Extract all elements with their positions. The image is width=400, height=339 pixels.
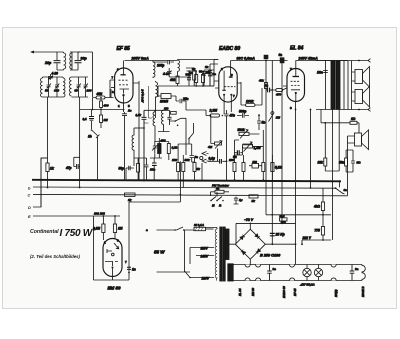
svg-text:5k: 5k [197,167,201,171]
electrolytic 25Kp [270,233,275,235]
capacitor C2 30p [75,61,82,63]
svg-text:220: 220 [163,106,169,110]
resistor 100/5 lower [155,98,157,118]
svg-text:B 250 C100: B 250 C100 [260,254,281,258]
svg-text:100: 100 [229,158,234,162]
svg-text:80C 0,8mA: 80C 0,8mA [237,56,256,60]
svg-text:775: 775 [315,229,321,233]
wire: bus C [33,194,348,195]
resistor 1k on x47.5 [46,163,49,172]
wire screen down [138,81,140,180]
capacitor C1 20p [54,61,61,63]
svg-text:5n: 5n [265,84,268,88]
svg-text:1k: 1k [128,198,132,202]
svg-text:0,1M: 0,1M [93,227,100,231]
coil L2 [70,53,72,69]
T3 secondary coil [178,60,180,74]
svg-text:5k: 5k [216,187,220,191]
TA input arrows [202,152,209,164]
capacitor 25n dark [152,163,157,165]
pot 1M tone [269,112,275,122]
coil T1 right [63,77,65,97]
svg-text:∠17 5/0,2A: ∠17 5/0,2A [300,283,315,287]
switches M R [210,200,212,202]
svg-text:5,1M: 5,1M [275,166,282,170]
OT connections [316,60,368,110]
EM80 internals [107,243,119,253]
detector row caps/resistors [158,77,214,97]
EF85 internals [121,74,126,76]
svg-text:I 750 W: I 750 W [60,228,94,239]
resistor 40n bottom [345,158,348,166]
svg-text:46k: 46k [96,92,104,96]
svg-text:100k: 100k [246,100,255,104]
resistor 41k on 266 [264,83,267,89]
svg-text:EL 84: EL 84 [238,288,242,296]
wire T1 bottom down to b [47,97,49,188]
speaker arrows [368,59,371,112]
capacitor 2n cathode [122,112,127,180]
coil L3 osc [132,128,134,158]
resistor 775 [321,227,324,236]
resistor 6,2k [167,144,170,154]
wire: bus b [33,187,336,188]
svg-text:1b: 1b [88,135,92,139]
svg-text:5k: 5k [252,199,256,203]
lamp 1 [303,268,311,276]
svg-text:6a: 6a [279,53,283,57]
tube V2 EABC80 envelope [219,67,237,102]
svg-text:600: 600 [54,89,59,93]
svg-text:10k: 10k [172,158,177,162]
svg-text:1M: 1M [118,227,123,231]
capacitor 1n strip2 [350,265,355,281]
speaker SP2 [355,90,363,104]
svg-text:EF 85: EF 85 [117,46,131,52]
capacitor 0,1u het [208,160,226,162]
OT bottom wire [316,109,368,111]
svg-text:41k: 41k [258,79,264,83]
resistor 10k mid [177,163,180,172]
svg-text:240V 42mA: 240V 42mA [298,56,319,60]
svg-text:1n: 1n [273,267,277,271]
RC combo bias [280,218,288,221]
wire: bus D [33,158,48,207]
wire T2 bottom down [79,97,81,188]
resistor 100 det [233,163,236,172]
svg-text:5Ω: 5Ω [357,161,362,165]
box 100/5 [161,94,171,99]
trimmer cap T1b [55,77,59,97]
resistor 470 grid [276,89,283,92]
svg-text:C: C [28,193,31,198]
pot 4M [215,142,222,145]
svg-text:EM 80: EM 80 [108,286,122,291]
EABC80 internals [223,71,225,90]
capacitor 10n [323,71,328,73]
switch 6a right [336,181,345,194]
wire down to bus [97,137,99,180]
tube V4 EM80 envelope [103,239,122,277]
svg-text:470: 470 [275,93,281,97]
T5 primary winding [215,229,217,281]
strip end bump [362,265,365,281]
svg-text:47n: 47n [229,114,236,118]
verticals to buses mid [180,161,226,202]
lamp 2 [314,268,322,276]
svg-text:EF(B): EF(B) [334,289,338,297]
wire grid down column [80,98,125,130]
capacitor 6n [234,152,243,154]
T5 heater winding right [228,264,233,281]
wire vertical 266 [266,61,331,215]
svg-text:25 Kp: 25 Kp [275,233,285,237]
resistor 1M vertical [100,115,103,123]
wire TA down [201,163,203,180]
wire vertical 272.3 [271,61,273,245]
svg-text:4kΩ: 4kΩ [313,205,321,209]
tube V3 EL84 envelope [287,69,305,102]
resistor 50k mid [182,163,185,172]
svg-text:50k: 50k [185,158,190,162]
svg-text:1,5k: 1,5k [136,113,142,117]
electrolytic 400 [158,144,161,154]
svg-text:2n: 2n [127,109,132,113]
wire assembly2 top [70,52,80,70]
resistor 46k grid [96,96,105,99]
svg-text:100/5: 100/5 [160,100,168,104]
resistor 40k [176,76,179,84]
T5 taps [190,248,214,278]
capacitor 50p [126,158,134,180]
svg-text:220V: 220V [201,277,210,281]
svg-text:Continental: Continental [30,229,59,235]
svg-text:25n: 25n [149,168,155,172]
resistor 1k C line [125,193,136,196]
resistor 5,1M [271,163,274,172]
strip bumps 4 [331,265,336,281]
svg-text:4M: 4M [207,145,213,149]
svg-text:EABC 80: EABC 80 [282,286,286,298]
svg-text:E: E [28,214,31,219]
capacitor 47p stub [74,157,80,166]
capacitor 1n EM80 [127,267,131,269]
heater strip top/bottom [229,265,362,281]
det area wires [218,122,264,181]
IF transformer T3 primary coil [153,61,155,79]
osc coil A [153,110,155,141]
strip bumps 3 [290,265,295,281]
coupling cap 0,2 horizontal [266,88,272,93]
capacitor 5n det [257,114,261,130]
resistor det2 [242,163,245,172]
wires left bias bottom [186,86,214,110]
wire osc top [144,109,170,111]
svg-text:1n: 1n [132,268,136,272]
svg-text:5n: 5n [262,121,266,125]
svg-text:400: 400 [103,104,109,108]
resistor 0,1M EM80 [102,224,105,233]
pin stubs V1 [110,61,139,113]
IF can T1 [41,77,64,97]
svg-text:10n: 10n [317,71,323,75]
capacitor 1n strip1 [267,265,272,281]
svg-text:30p: 30p [81,57,88,61]
svg-text:Si 0,1A: Si 0,1A [194,223,204,227]
svg-text:6a: 6a [344,188,348,192]
wire: bus E [33,215,120,217]
switch 1b [91,129,93,131]
capacitor 5k bottom [351,150,355,172]
capacitor 1,5k osc [142,110,147,180]
capacitor 25n [176,96,186,110]
capacitor 5n band [190,150,195,162]
svg-text:1n: 1n [355,267,359,271]
wire 282V [302,110,333,245]
svg-text:500: 500 [253,160,258,164]
svg-text:1Ω: 1Ω [351,117,356,121]
IF can T2 [70,77,89,97]
svg-text:2,2M: 2,2M [209,109,218,113]
coil L1 [57,52,66,70]
svg-text:EM 80: EM 80 [251,287,255,296]
trimmer cap T1a [47,77,51,97]
power transformer T5 core [220,227,222,281]
svg-text:50: 50 [199,70,203,74]
capacitor 40n keys [234,197,239,204]
EM80 enclosure wires [94,202,181,280]
bridge B250C100 diamond [235,229,265,259]
bridge diodes [240,234,261,255]
capacitor 220 osc [167,110,171,125]
box 500 det [252,164,259,169]
bridge connections [229,223,296,264]
resistor 2,2M [210,114,220,117]
wire T3 top [153,60,218,61]
svg-text:FM Tastatur: FM Tastatur [212,184,230,188]
T3 second winding [156,81,158,98]
capacitor 47n [224,110,228,122]
svg-text:5k: 5k [189,71,193,75]
svg-text:282 V: 282 V [302,236,312,240]
svg-text:50: 50 [45,89,49,93]
svg-text:0,1: 0,1 [83,117,88,121]
resistor det3 [262,163,265,172]
capacitor osc2 [143,158,149,180]
antenna A arrow [30,51,34,54]
resistor 5k mid [193,163,196,172]
svg-text:EL 84: EL 84 [290,46,303,52]
wires right area verticals [310,110,312,189]
cap rows left of V2 [202,70,214,86]
capacitor 500p [237,113,249,117]
svg-text:−73 V: −73 V [244,218,254,222]
capacitor 105p [153,60,174,64]
wires osc region [178,144,194,162]
wire antenna to L1 [33,52,64,70]
mains lower wire [157,271,191,273]
svg-text:40k: 40k [169,78,176,82]
trimmer cap T2a [77,77,81,97]
resistor 100k [246,104,256,107]
svg-text:1M: 1M [276,116,281,120]
svg-text:105p: 105p [157,64,164,68]
svg-text:88,0: 88,0 [280,214,286,218]
svg-text:50: 50 [75,89,79,93]
resistor 1M EM80 [113,224,116,233]
left bias row: resistor 5k [193,71,196,80]
wire: main thick B+ bus [32,180,341,182]
wire anode bus [296,60,348,62]
svg-text:500p: 500p [239,110,246,114]
svg-text:500k: 500k [238,128,245,132]
output transformer T4 core [331,61,335,109]
pot 1,3M [243,145,253,148]
trimmer 4-20 [48,74,53,80]
resistor 0,1M horizontal [171,111,177,114]
svg-text:D: D [28,205,31,210]
resistor 5k keys [215,190,224,193]
svg-text:10k: 10k [318,161,324,165]
selector switch [184,230,190,278]
strip bumps 1 [245,265,250,281]
pot 500k volume [239,132,249,135]
svg-text:6,2k: 6,2k [172,146,178,150]
svg-text:EABC 80: EABC 80 [219,46,240,52]
svg-text:5n: 5n [195,155,199,159]
svg-text:20p: 20p [44,61,52,65]
resistor 1ohm tweeter [350,121,357,124]
svg-text:4-20: 4-20 [51,72,59,76]
wire anode to T3 [125,60,154,62]
EL84 internals [293,76,300,78]
wire assembly2 to grid line [78,52,93,97]
trimmer cap T2b [84,77,88,97]
switch osc [175,120,177,122]
svg-text:50p: 50p [119,167,125,171]
svg-text:145V: 145V [201,255,209,259]
svg-text:(2. Teil des Schaltbildes): (2. Teil des Schaltbildes) [30,254,81,259]
trimmer 4-30 [167,68,172,77]
svg-text:40n: 40n [338,161,345,165]
osc coil B [158,110,170,131]
grid wire [110,80,111,98]
resistor 5k on C [249,195,258,198]
svg-text:APC 0,4-5: APC 0,4-5 [141,89,145,104]
fuse Si [194,227,206,230]
wire L y158 [41,158,48,207]
T5 HV winding right [226,229,229,260]
svg-text:101 102: 101 102 [94,212,105,216]
wire anode up right [231,60,288,62]
svg-text:4-30: 4-30 [162,72,170,76]
speaker SP1 [355,70,363,84]
resistor 500 osc [137,164,140,173]
resistor 4k dropper [321,202,324,211]
svg-text:2k: 2k [205,65,209,69]
tube V1 EF85 envelope [115,68,133,103]
resistor 10k bottom [324,158,327,166]
resistor 400 [100,101,103,108]
switch band [188,138,190,140]
svg-text:1M: 1M [104,118,109,122]
wire detector to EABC grid [214,60,219,87]
svg-text:EF 85: EF 85 [293,288,297,296]
svg-text:110V: 110V [201,247,209,251]
svg-text:205V 9mA: 205V 9mA [131,56,150,60]
svg-text:25n: 25n [182,97,189,101]
svg-text:55 W: 55 W [154,250,165,255]
capacitor 0,1u [89,117,94,121]
svg-text:47p: 47p [65,166,72,170]
svg-text:ESCH B: ESCH B [361,286,365,297]
speaker SP3 tweeter [355,133,362,146]
strip bumps 2 [256,265,261,281]
svg-text:1μ: 1μ [239,198,243,202]
svg-text:160: 160 [87,89,92,93]
trimmer cap osc [152,141,158,153]
svg-text:0,1μ: 0,1μ [209,157,215,161]
